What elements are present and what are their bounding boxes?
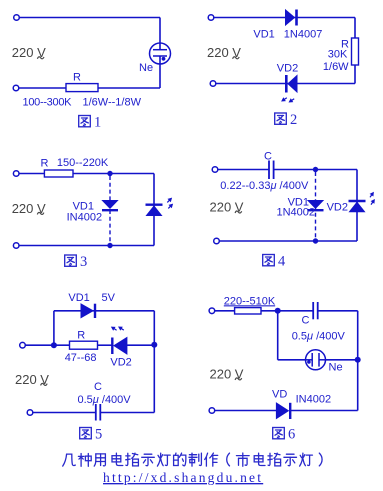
diode VD1 fig3 [102,201,118,211]
svg-text:5V: 5V [102,292,116,304]
svg-text:1N4007: 1N4007 [284,28,323,40]
caption 图 3 [65,254,88,270]
svg-text:VD2: VD2 [110,356,131,368]
wire fig6 top left [215,310,235,312]
wire fig3 top left [19,173,44,175]
diode VD1 fig2 [286,10,297,26]
svg-text:0.5μ /400V: 0.5μ /400V [78,394,132,406]
wire fig2 bottom [216,83,355,85]
wire fig6 top right [318,310,358,312]
terminal fig2 bottom-left [210,81,216,87]
LED arrows fig2 [280,96,288,104]
terminal fig3 top-left [13,171,19,177]
wire fig5 main left [26,344,70,346]
wire fig2 right vertical lower [354,65,356,84]
LED VD2 fig4 [349,201,366,212]
svg-text:IN4002: IN4002 [67,212,102,224]
svg-text:150--220K: 150--220K [57,157,109,169]
LED fig3 [146,205,163,216]
svg-text:C: C [264,151,272,163]
wire fig3 bottom [19,245,154,247]
wire fig3 top right [73,173,154,175]
caption 图 5 [80,427,103,443]
resistor R fig5 [70,341,98,349]
svg-text:C: C [94,381,102,393]
wire fig5 main middle [98,344,113,346]
wire fig2 top [214,17,355,19]
terminal fig4 bottom-left [214,238,220,244]
caption 图 4 [263,254,286,270]
junction fig6 right [355,357,361,363]
svg-text:VD: VD [272,389,287,401]
wire fig6 top middle [261,310,313,312]
capacitor C fig5 [96,404,101,421]
wire fig1 right vertical upper [159,18,161,50]
capacitor C fig6 [313,302,318,319]
wire fig1 right vertical lower [159,56,161,88]
svg-text:100--300K: 100--300K [23,97,73,109]
junction fig4 bottom [313,238,318,243]
wire fig6 bottom left [215,410,276,412]
neon lamp Ne fig1 [150,43,171,64]
svg-text:Ne: Ne [329,362,343,374]
svg-text:2: 2 [290,112,297,128]
zener diode VD1 fig5 [81,304,95,318]
wire fig4 top left [218,169,269,171]
svg-text:VD1: VD1 [253,28,274,40]
terminal fig6 top-left [209,308,215,314]
terminal fig3 bottom-left [13,243,19,249]
wire fig5 bridge left vertical [53,311,55,345]
wire fig5 bottom left [33,412,96,414]
wire fig4 dashed branch [315,172,317,240]
title 几种用电指示灯的制作（市电指示灯） [63,453,322,466]
terminal fig5 bottom-left [27,410,33,416]
wire fig4 right vertical [356,170,358,242]
caption 图 2 [275,112,298,128]
LED VD2 fig5 [112,338,127,355]
svg-text:R: R [73,72,81,84]
caption 图 6 [273,427,296,443]
wire fig1 top [20,17,161,19]
svg-text:1/6W--1/8W: 1/6W--1/8W [83,97,142,109]
terminal fig1 bottom-left [13,85,19,91]
wire fig5 main right [127,344,154,346]
svg-text:0.22--0.33μ /400V: 0.22--0.33μ /400V [220,180,309,192]
junction fig4 top [313,167,318,172]
neon lamp Ne fig6 [306,350,326,370]
wire fig4 bottom [220,240,358,242]
junction fig3 top [107,171,112,176]
terminal fig2 top-left [208,15,214,21]
resistor R fig1 [66,84,98,92]
wire fig5 bridge top [54,310,154,312]
caption 图 1 [79,115,102,131]
LED arrows fig5 [110,325,118,333]
wire fig5 bottom right [100,412,154,414]
terminal fig4 top-left [212,167,218,173]
LED arrows fig4 [368,190,376,198]
junction fig6 top [275,308,281,314]
svg-text:1/6W: 1/6W [323,61,349,73]
svg-text:C: C [302,315,310,327]
resistor fig6 [235,308,261,314]
wire fig4 top right [274,169,357,171]
svg-text:R: R [77,330,85,342]
svg-text:http://xd.shangdu.net: http://xd.shangdu.net [103,470,263,485]
svg-text:VD1: VD1 [68,292,89,304]
svg-text:R: R [41,158,49,170]
svg-text:30K: 30K [328,49,348,61]
svg-text:IN4002: IN4002 [296,394,331,406]
resistor R fig3 [44,170,73,177]
terminal fig1 top-left [14,15,20,21]
svg-text:220--510K: 220--510K [224,295,276,307]
wire fig3 dashed branch [109,176,111,245]
wire fig5 bridge right vertical [153,311,155,345]
svg-text:0.5μ /400V: 0.5μ /400V [292,331,346,343]
LED arrows fig3 [166,196,174,204]
wire fig2 right vertical upper [354,18,356,39]
wire fig1 bottom right [98,87,160,89]
junction fig5 left [51,342,57,348]
svg-text:1: 1 [94,115,101,131]
capacitor C fig4 [269,161,274,180]
diode VD1 fig4 [308,201,324,211]
svg-text:5: 5 [95,427,102,443]
diode VD fig6 [276,403,290,419]
terminal fig6 bottom-left [209,408,215,414]
svg-text:3: 3 [80,254,87,270]
svg-text:6: 6 [288,427,295,443]
wire fig6 neon branch horizontal [278,359,306,361]
svg-text:Ne: Ne [139,62,153,74]
svg-text:1N4002: 1N4002 [277,207,316,219]
wire fig6 bottom right [291,410,358,412]
svg-text:VD2: VD2 [327,202,348,214]
wire fig6 neon to right [326,359,358,361]
wire fig3 right vertical [153,174,155,246]
wire fig6 neon branch vertical [277,311,279,360]
terminal fig5 left [20,342,26,348]
wire fig1 bottom left [19,87,66,89]
wire fig5 right vertical [153,345,155,413]
svg-text:47--68: 47--68 [65,352,97,364]
junction fig5 right [151,342,157,348]
svg-text:VD2: VD2 [277,63,298,75]
wire fig6 right vertical [357,311,359,411]
junction fig3 bottom [107,243,112,248]
LED VD2 fig2 [286,75,297,93]
svg-text:4: 4 [278,254,286,270]
resistor R fig2 [352,38,359,65]
